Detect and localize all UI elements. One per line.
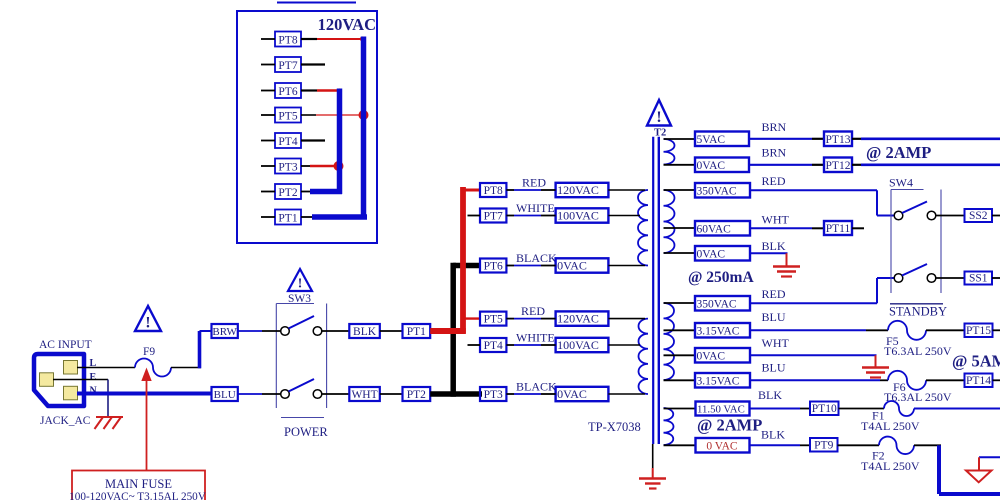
svg-text:3.15VAC: 3.15VAC [697, 325, 740, 337]
svg-text:350VAC: 350VAC [697, 185, 737, 197]
svg-text:60VAC: 60VAC [697, 223, 732, 235]
svg-text:PT14: PT14 [966, 375, 991, 387]
svg-text:TP-X7038: TP-X7038 [588, 420, 641, 434]
svg-text:PT8: PT8 [278, 34, 297, 46]
svg-text:BLK: BLK [762, 239, 786, 253]
svg-text:120VAC: 120VAC [557, 183, 599, 197]
svg-text:RED: RED [762, 287, 786, 301]
svg-text:@ 250mA: @ 250mA [688, 269, 754, 286]
svg-text:PT4: PT4 [278, 136, 297, 148]
svg-text:RED: RED [522, 175, 546, 189]
svg-text:BLK: BLK [761, 428, 785, 442]
svg-text:WHITE: WHITE [516, 201, 555, 215]
svg-text:PT11: PT11 [826, 223, 851, 235]
svg-text:PT12: PT12 [826, 160, 851, 172]
svg-text:120VAC: 120VAC [318, 15, 376, 34]
svg-text:SS2: SS2 [969, 210, 988, 222]
svg-text:5VAC: 5VAC [697, 134, 726, 146]
svg-text:0VAC: 0VAC [557, 259, 587, 273]
svg-text:PT4: PT4 [484, 340, 503, 352]
svg-text:!: ! [656, 109, 661, 126]
svg-text:BLU: BLU [762, 361, 786, 375]
svg-text:PT15: PT15 [966, 325, 991, 337]
svg-text:100-120VAC~ T3.15AL 250V: 100-120VAC~ T3.15AL 250V [69, 491, 206, 500]
svg-text:3.15VAC: 3.15VAC [697, 375, 740, 387]
svg-text:RED: RED [521, 304, 545, 318]
svg-text:RED: RED [762, 174, 786, 188]
svg-text:PT2: PT2 [278, 187, 297, 199]
svg-text:T4AL 250V: T4AL 250V [861, 419, 920, 433]
svg-text:SS1: SS1 [969, 272, 988, 284]
svg-text:T2: T2 [654, 128, 666, 139]
svg-text:PT3: PT3 [278, 161, 297, 173]
svg-text:POWER: POWER [284, 425, 328, 439]
svg-text:JACK_AC: JACK_AC [40, 415, 91, 427]
svg-text:SW4: SW4 [889, 176, 913, 190]
svg-text:0 VAC: 0 VAC [706, 441, 738, 453]
svg-text:MAIN FUSE: MAIN FUSE [105, 477, 172, 491]
svg-text:0VAC: 0VAC [697, 350, 726, 362]
svg-text:100VAC: 100VAC [557, 209, 599, 223]
svg-text:T4AL 250V: T4AL 250V [861, 459, 920, 473]
svg-text:@ 5AMP: @ 5AMP [952, 352, 1000, 371]
svg-text:WHT: WHT [762, 336, 790, 350]
svg-text:F9: F9 [143, 346, 155, 358]
svg-text:100VAC: 100VAC [557, 338, 599, 352]
svg-text:E: E [90, 372, 97, 383]
svg-text:AC INPUT: AC INPUT [39, 339, 92, 351]
svg-text:!: ! [298, 276, 303, 291]
svg-text:@ 2AMP: @ 2AMP [697, 416, 762, 435]
svg-text:120VAC: 120VAC [557, 312, 599, 326]
svg-text:PT6: PT6 [484, 260, 503, 272]
svg-text:WHITE: WHITE [516, 330, 555, 344]
svg-text:PT2: PT2 [407, 389, 426, 401]
svg-text:PT8: PT8 [484, 185, 503, 197]
svg-text:PT3: PT3 [484, 389, 503, 401]
svg-text:BLACK: BLACK [516, 379, 557, 393]
svg-text:BLACK: BLACK [516, 251, 557, 265]
svg-text:!: ! [145, 315, 150, 332]
svg-text:PT9: PT9 [814, 439, 833, 451]
svg-text:PT7: PT7 [278, 60, 297, 72]
svg-text:0VAC: 0VAC [557, 387, 587, 401]
svg-text:BLK: BLK [758, 388, 782, 402]
svg-text:BRW: BRW [212, 326, 237, 338]
svg-text:@ 2AMP: @ 2AMP [866, 143, 931, 162]
svg-text:PT1: PT1 [407, 326, 426, 338]
svg-text:PT7: PT7 [484, 210, 503, 222]
svg-text:BLK: BLK [353, 326, 377, 338]
svg-text:350VAC: 350VAC [697, 298, 737, 310]
svg-text:PT6: PT6 [278, 86, 297, 98]
svg-text:PT10: PT10 [812, 403, 837, 415]
svg-text:BRN: BRN [762, 146, 787, 160]
svg-text:0VAC: 0VAC [697, 248, 726, 260]
svg-text:BLU: BLU [762, 310, 786, 324]
svg-text:PT5: PT5 [278, 110, 297, 122]
svg-text:BRN: BRN [762, 120, 787, 134]
svg-text:T6.3AL 250V: T6.3AL 250V [884, 344, 952, 358]
svg-text:PT5: PT5 [484, 313, 503, 325]
svg-text:11.50 VAC: 11.50 VAC [697, 403, 745, 415]
svg-text:PT13: PT13 [826, 134, 851, 146]
svg-text:WHT: WHT [762, 213, 790, 227]
svg-text:WHT: WHT [351, 389, 377, 401]
svg-text:STANDBY: STANDBY [889, 305, 947, 319]
svg-text:0VAC: 0VAC [697, 160, 726, 172]
svg-text:PT1: PT1 [278, 212, 297, 224]
svg-text:BLU: BLU [214, 389, 236, 401]
